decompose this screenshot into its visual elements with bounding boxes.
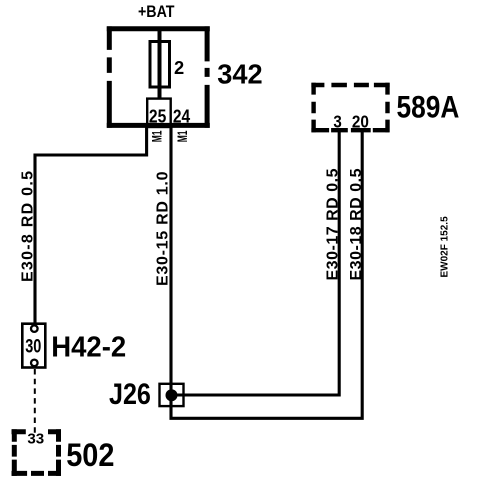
junction box J26 [160, 384, 184, 406]
pin box [147, 99, 171, 127]
svg-text:E30-18 RD 0.5: E30-18 RD 0.5 [348, 168, 365, 280]
svg-text:502: 502 [66, 436, 114, 473]
relay box 342 (dashed border) [107, 26, 210, 127]
dashed wire H42-2 to 502 [34, 369, 36, 436]
svg-text:25: 25 [149, 107, 166, 127]
svg-text:E30-8 RD 0.5: E30-8 RD 0.5 [20, 171, 37, 282]
svg-text:342: 342 [217, 59, 262, 90]
svg-text:3: 3 [333, 112, 341, 132]
svg-text:E30-15 RD 1.0: E30-15 RD 1.0 [155, 171, 172, 286]
wire E30-8 from pin 25 to H42-2 [35, 128, 147, 324]
svg-text:30: 30 [25, 336, 41, 357]
svg-text:M1: M1 [174, 130, 190, 142]
svg-text:2: 2 [174, 57, 184, 78]
terminal circle top of H42-2 [31, 325, 38, 332]
svg-text:33: 33 [27, 431, 44, 447]
wire E30-17 from J26 to 589A pin 3 [172, 128, 340, 395]
connector box 589A (dashed border) [311, 83, 389, 133]
svg-text:H42-2: H42-2 [51, 331, 126, 363]
wire E30-18 from J26 to 589A pin 20 [171, 128, 362, 418]
svg-text:M1: M1 [149, 130, 165, 142]
terminal circle bottom of H42-2 [31, 360, 38, 367]
fuse F2 [150, 42, 170, 88]
wire through fuse [158, 28, 162, 99]
svg-text:20: 20 [352, 112, 369, 132]
junction dot J26 [166, 389, 178, 401]
svg-text:589A: 589A [397, 89, 460, 125]
svg-text:E30-17 RD 0.5: E30-17 RD 0.5 [324, 168, 341, 280]
ground box 502 (dashed border) [12, 429, 62, 476]
svg-text:+BAT: +BAT [138, 2, 175, 21]
svg-text:J26: J26 [109, 378, 151, 411]
wire E30-15 from pin 24 to J26 [169, 128, 172, 385]
svg-text:24: 24 [173, 107, 190, 127]
connector H42-2 body [22, 324, 45, 368]
svg-text:EW02F 152.5: EW02F 152.5 [440, 216, 451, 278]
